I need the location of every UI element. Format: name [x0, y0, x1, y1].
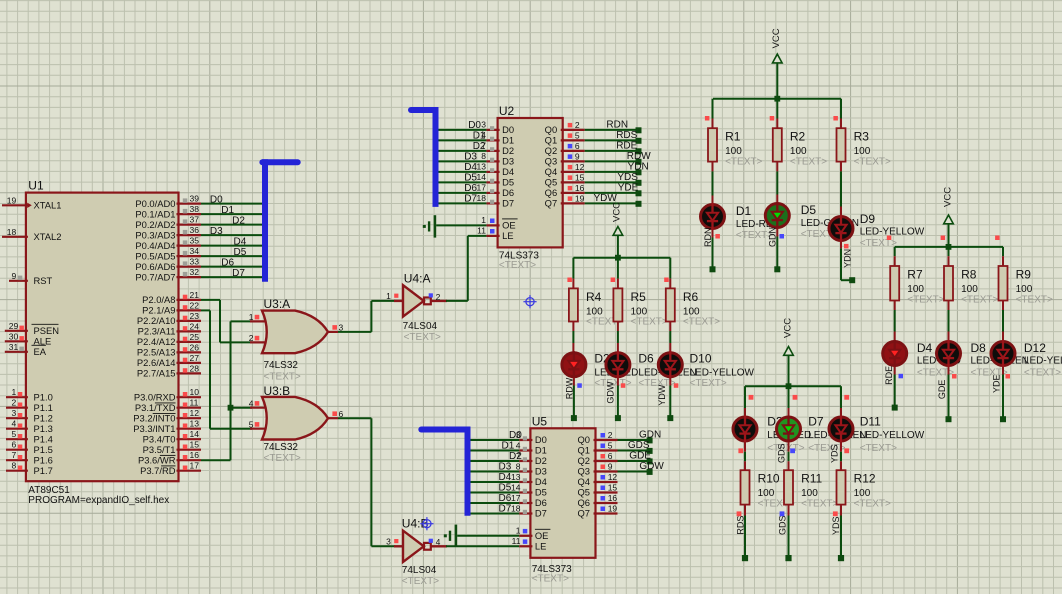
svg-text:3: 3: [11, 408, 16, 418]
svg-text:74LS04: 74LS04: [403, 321, 438, 332]
svg-text:R10: R10: [758, 472, 780, 486]
svg-text:R3: R3: [854, 130, 870, 144]
svg-text:4: 4: [516, 440, 521, 450]
svg-text:30: 30: [9, 331, 19, 341]
svg-text:19: 19: [608, 504, 618, 514]
svg-text:RDS: RDS: [735, 516, 745, 535]
svg-text:D7: D7: [808, 415, 824, 429]
svg-text:YDS: YDS: [831, 516, 841, 535]
svg-text:OE: OE: [535, 530, 549, 541]
svg-text:5: 5: [575, 131, 580, 141]
svg-text:D7: D7: [535, 508, 547, 519]
svg-text:25: 25: [190, 332, 200, 342]
svg-text:34: 34: [190, 246, 200, 256]
svg-text:D9: D9: [860, 212, 876, 226]
svg-text:P1.2: P1.2: [34, 412, 53, 423]
svg-text:P3.1/TXD: P3.1/TXD: [135, 402, 176, 413]
svg-text:1: 1: [481, 215, 486, 225]
svg-text:Q7: Q7: [577, 508, 590, 519]
svg-text:VCC: VCC: [612, 202, 623, 222]
svg-text:<TEXT>: <TEXT>: [683, 317, 720, 328]
svg-text:LED-YELLOW: LED-YELLOW: [860, 227, 925, 238]
svg-text:R2: R2: [790, 130, 806, 144]
svg-text:D3: D3: [502, 156, 514, 167]
svg-text:D6: D6: [535, 497, 547, 508]
svg-text:P3.6/WR: P3.6/WR: [138, 454, 176, 465]
svg-text:RDW: RDW: [564, 377, 574, 399]
svg-text:P1.4: P1.4: [34, 433, 53, 444]
svg-text:16: 16: [575, 183, 585, 193]
svg-text:9: 9: [608, 462, 613, 472]
svg-text:PROGRAM=expandIO_self.hex: PROGRAM=expandIO_self.hex: [28, 495, 169, 506]
svg-text:39: 39: [190, 194, 200, 204]
svg-text:2: 2: [249, 333, 254, 343]
svg-text:P0.7/AD7: P0.7/AD7: [135, 271, 175, 282]
svg-text:P0.6/AD6: P0.6/AD6: [135, 261, 175, 272]
svg-text:6: 6: [11, 440, 16, 450]
svg-text:U2: U2: [499, 104, 515, 118]
svg-text:2: 2: [436, 292, 441, 302]
svg-text:RDE: RDE: [884, 366, 894, 385]
svg-text:D2: D2: [232, 215, 245, 226]
svg-text:2: 2: [11, 398, 16, 408]
svg-text:<TEXT>: <TEXT>: [961, 294, 998, 305]
svg-text:Q6: Q6: [577, 497, 590, 508]
svg-text:15: 15: [190, 440, 200, 450]
svg-text:P2.6/A14: P2.6/A14: [137, 357, 176, 368]
svg-text:D4: D4: [917, 341, 933, 355]
svg-text:8: 8: [516, 461, 521, 471]
svg-text:D5: D5: [535, 487, 547, 498]
svg-text:D1: D1: [221, 205, 234, 216]
svg-text:P0.1/AD1: P0.1/AD1: [135, 208, 175, 219]
svg-text:P3.0/RXD: P3.0/RXD: [134, 391, 176, 402]
svg-text:GDS: GDS: [778, 515, 788, 535]
svg-text:R7: R7: [907, 268, 923, 282]
svg-text:EA: EA: [34, 346, 47, 357]
svg-text:P2.3/A11: P2.3/A11: [138, 326, 176, 337]
svg-text:13: 13: [477, 162, 487, 172]
svg-text:1: 1: [386, 291, 391, 301]
svg-text:<TEXT>: <TEXT>: [854, 157, 891, 168]
svg-text:<TEXT>: <TEXT>: [690, 378, 727, 389]
svg-text:P1.7: P1.7: [34, 465, 53, 476]
svg-text:P3.7/RD: P3.7/RD: [140, 465, 176, 476]
svg-text:D3: D3: [210, 226, 223, 237]
svg-text:<TEXT>: <TEXT>: [264, 453, 301, 464]
svg-text:R12: R12: [854, 472, 876, 486]
svg-text:8: 8: [11, 461, 16, 471]
svg-text:U5: U5: [532, 414, 548, 428]
svg-text:D1: D1: [502, 135, 514, 146]
svg-text:12: 12: [608, 472, 618, 482]
svg-text:<TEXT>: <TEXT>: [532, 574, 569, 585]
svg-text:VCC: VCC: [782, 318, 793, 338]
svg-text:Q5: Q5: [577, 487, 590, 498]
svg-text:D1: D1: [535, 445, 547, 456]
svg-text:U1: U1: [28, 179, 44, 193]
svg-text:LE: LE: [502, 230, 513, 241]
svg-text:GDS: GDS: [776, 443, 786, 463]
svg-text:8: 8: [481, 151, 486, 161]
svg-text:YDN: YDN: [628, 161, 649, 172]
svg-text:31: 31: [9, 342, 19, 352]
svg-text:21: 21: [190, 290, 200, 300]
svg-text:1: 1: [516, 526, 521, 536]
svg-text:GDN: GDN: [639, 430, 661, 441]
svg-text:2: 2: [575, 120, 580, 130]
svg-text:18: 18: [477, 193, 487, 203]
svg-text:OE: OE: [502, 220, 516, 231]
svg-text:D3: D3: [535, 466, 547, 477]
svg-text:11: 11: [190, 398, 199, 408]
svg-text:RST: RST: [34, 275, 53, 286]
svg-text:3: 3: [386, 537, 391, 547]
svg-text:R9: R9: [1016, 268, 1032, 282]
svg-text:<TEXT>: <TEXT>: [499, 260, 536, 271]
svg-text:<TEXT>: <TEXT>: [860, 238, 897, 249]
svg-text:R5: R5: [631, 290, 647, 304]
svg-text:R1: R1: [725, 130, 741, 144]
svg-text:GDE: GDE: [629, 451, 651, 462]
svg-text:P1.0: P1.0: [34, 391, 53, 402]
svg-text:9: 9: [575, 152, 580, 162]
svg-text:R4: R4: [586, 290, 602, 304]
svg-text:P2.7/A15: P2.7/A15: [137, 368, 176, 379]
svg-text:7: 7: [11, 450, 16, 460]
svg-text:19: 19: [575, 194, 585, 204]
svg-text:U3:B: U3:B: [264, 384, 291, 398]
svg-text:13: 13: [190, 419, 200, 429]
svg-text:38: 38: [190, 204, 200, 214]
svg-text:D4: D4: [502, 166, 514, 177]
svg-text:R6: R6: [683, 290, 699, 304]
svg-text:Q7: Q7: [545, 198, 558, 209]
svg-text:<TEXT>: <TEXT>: [725, 157, 762, 168]
svg-text:14: 14: [477, 172, 487, 182]
svg-text:GDS: GDS: [628, 440, 650, 451]
svg-text:9: 9: [11, 271, 16, 281]
svg-text:D4: D4: [535, 476, 547, 487]
svg-text:<TEXT>: <TEXT>: [860, 443, 897, 454]
svg-text:35: 35: [190, 236, 200, 246]
svg-text:6: 6: [608, 451, 613, 461]
svg-text:YDE: YDE: [618, 182, 639, 193]
svg-text:YDW: YDW: [657, 384, 667, 406]
svg-text:P0.2/AD2: P0.2/AD2: [135, 219, 175, 230]
svg-text:Q4: Q4: [545, 166, 558, 177]
svg-text:14: 14: [190, 429, 200, 439]
svg-text:D12: D12: [1024, 341, 1046, 355]
svg-text:1: 1: [249, 312, 254, 322]
svg-text:YDN: YDN: [843, 249, 853, 268]
svg-text:D6: D6: [638, 352, 654, 366]
svg-text:D0: D0: [502, 124, 514, 135]
svg-text:P2.4/A12: P2.4/A12: [137, 336, 176, 347]
svg-text:D4: D4: [234, 236, 247, 247]
svg-text:D0: D0: [535, 434, 547, 445]
svg-text:PSEN: PSEN: [34, 325, 60, 336]
svg-text:<TEXT>: <TEXT>: [854, 499, 891, 510]
svg-text:P1.5: P1.5: [34, 444, 53, 455]
svg-text:Q1: Q1: [545, 135, 558, 146]
svg-text:14: 14: [511, 482, 521, 492]
svg-text:P2.0/A8: P2.0/A8: [142, 294, 175, 305]
svg-text:13: 13: [511, 472, 521, 482]
svg-text:16: 16: [190, 450, 200, 460]
svg-text:22: 22: [190, 300, 200, 310]
svg-text:D5: D5: [502, 177, 514, 188]
svg-text:24: 24: [190, 321, 200, 331]
svg-text:<TEXT>: <TEXT>: [631, 317, 668, 328]
svg-text:D2: D2: [535, 455, 547, 466]
svg-text:28: 28: [190, 363, 200, 373]
svg-text:15: 15: [608, 483, 618, 493]
svg-text:R8: R8: [961, 268, 977, 282]
svg-text:10: 10: [190, 387, 200, 397]
svg-text:12: 12: [575, 162, 585, 172]
svg-text:11: 11: [512, 536, 521, 546]
svg-text:YDS: YDS: [830, 444, 840, 463]
svg-text:36: 36: [190, 225, 200, 235]
svg-text:VCC: VCC: [942, 187, 953, 207]
svg-text:D7: D7: [502, 198, 514, 209]
svg-text:<TEXT>: <TEXT>: [801, 499, 838, 510]
svg-text:D10: D10: [690, 352, 712, 366]
svg-text:P3.2/INT0: P3.2/INT0: [133, 412, 175, 423]
svg-text:<TEXT>: <TEXT>: [404, 332, 441, 343]
svg-text:29: 29: [9, 321, 19, 331]
svg-text:D1: D1: [736, 204, 752, 218]
svg-text:74LS04: 74LS04: [402, 565, 437, 576]
svg-text:4: 4: [249, 399, 254, 409]
svg-text:<TEXT>: <TEXT>: [808, 443, 845, 454]
svg-text:D5: D5: [234, 247, 247, 258]
svg-text:D5: D5: [801, 203, 817, 217]
svg-text:U4:A: U4:A: [404, 271, 431, 285]
svg-text:P0.5/AD5: P0.5/AD5: [135, 250, 175, 261]
svg-text:Q0: Q0: [577, 434, 590, 445]
svg-text:4: 4: [11, 419, 16, 429]
svg-text:Q5: Q5: [545, 177, 558, 188]
svg-text:4: 4: [436, 537, 441, 547]
svg-text:P1.3: P1.3: [34, 423, 53, 434]
svg-text:P1.1: P1.1: [34, 402, 53, 413]
svg-text:<TEXT>: <TEXT>: [264, 372, 301, 383]
svg-text:2: 2: [608, 430, 613, 440]
svg-text:P3.3/INT1: P3.3/INT1: [133, 423, 175, 434]
svg-text:5: 5: [11, 429, 16, 439]
svg-text:17: 17: [511, 493, 521, 503]
svg-text:P2.2/A10: P2.2/A10: [137, 315, 176, 326]
svg-text:11: 11: [477, 226, 486, 236]
svg-text:GDN: GDN: [768, 227, 778, 247]
svg-text:VCC: VCC: [771, 28, 782, 48]
svg-text:<TEXT>: <TEXT>: [907, 294, 944, 305]
svg-text:D8: D8: [971, 341, 987, 355]
svg-text:D11: D11: [860, 415, 881, 429]
svg-text:P2.1/A9: P2.1/A9: [142, 305, 175, 316]
svg-text:<TEXT>: <TEXT>: [1016, 294, 1053, 305]
svg-text:Q1: Q1: [577, 445, 590, 456]
svg-text:17: 17: [477, 183, 487, 193]
svg-text:P0.3/AD3: P0.3/AD3: [135, 229, 175, 240]
svg-text:LED-YELLOW: LED-YELLOW: [1024, 356, 1062, 367]
svg-text:RDS: RDS: [616, 130, 637, 141]
svg-text:<TEXT>: <TEXT>: [402, 576, 439, 587]
svg-text:YDS: YDS: [617, 172, 638, 183]
svg-text:XTAL1: XTAL1: [34, 200, 62, 211]
svg-text:Q4: Q4: [577, 476, 590, 487]
svg-text:74LS32: 74LS32: [264, 442, 299, 453]
svg-text:P2.5/A13: P2.5/A13: [137, 347, 176, 358]
svg-text:R11: R11: [801, 472, 822, 486]
svg-text:D0: D0: [210, 194, 223, 205]
svg-text:P0.0/AD0: P0.0/AD0: [135, 198, 175, 209]
svg-text:26: 26: [190, 342, 200, 352]
svg-text:1: 1: [11, 387, 16, 397]
svg-text:D2: D2: [502, 145, 514, 156]
svg-text:17: 17: [190, 461, 200, 471]
svg-text:32: 32: [190, 267, 200, 277]
svg-text:33: 33: [190, 257, 200, 267]
svg-text:LED-YELLOW: LED-YELLOW: [860, 430, 925, 441]
svg-text:18: 18: [511, 503, 521, 513]
svg-text:<TEXT>: <TEXT>: [790, 157, 827, 168]
svg-text:19: 19: [7, 195, 17, 205]
svg-text:P0.4/AD4: P0.4/AD4: [135, 240, 175, 251]
svg-text:GDW: GDW: [639, 461, 664, 472]
svg-text:16: 16: [608, 493, 618, 503]
svg-text:Q2: Q2: [545, 145, 558, 156]
svg-text:GDE: GDE: [937, 380, 947, 400]
svg-text:Q0: Q0: [545, 124, 558, 135]
svg-text:74LS32: 74LS32: [264, 360, 299, 371]
svg-text:12: 12: [190, 408, 200, 418]
svg-text:18: 18: [7, 227, 17, 237]
svg-text:3: 3: [481, 120, 486, 130]
svg-text:RDE: RDE: [616, 140, 637, 151]
svg-text:Q3: Q3: [577, 466, 590, 477]
svg-text:P3.5/T1: P3.5/T1: [143, 444, 176, 455]
svg-text:P3.4/T0: P3.4/T0: [143, 433, 176, 444]
svg-text:XTAL2: XTAL2: [34, 231, 62, 242]
svg-text:RDN: RDN: [606, 119, 628, 130]
svg-text:RDN: RDN: [703, 228, 713, 248]
svg-text:6: 6: [575, 141, 580, 151]
svg-text:GDW: GDW: [605, 381, 615, 404]
svg-text:P1.6: P1.6: [34, 454, 53, 465]
svg-text:LED-YELLOW: LED-YELLOW: [690, 368, 755, 379]
svg-text:Q3: Q3: [545, 156, 558, 167]
svg-text:Q2: Q2: [577, 455, 590, 466]
svg-text:37: 37: [190, 215, 200, 225]
svg-text:27: 27: [190, 353, 200, 363]
svg-text:D6: D6: [502, 187, 514, 198]
svg-text:<TEXT>: <TEXT>: [1024, 368, 1061, 379]
svg-text:23: 23: [190, 311, 200, 321]
svg-text:Q6: Q6: [545, 187, 558, 198]
svg-text:5: 5: [608, 441, 613, 451]
svg-text:15: 15: [575, 173, 585, 183]
svg-text:YDE: YDE: [992, 374, 1002, 393]
svg-text:5: 5: [249, 420, 254, 430]
svg-text:U3:A: U3:A: [264, 297, 291, 311]
svg-text:D7: D7: [232, 268, 245, 279]
svg-text:LE: LE: [535, 541, 546, 552]
svg-text:D6: D6: [221, 257, 234, 268]
svg-text:RDW: RDW: [627, 151, 651, 162]
